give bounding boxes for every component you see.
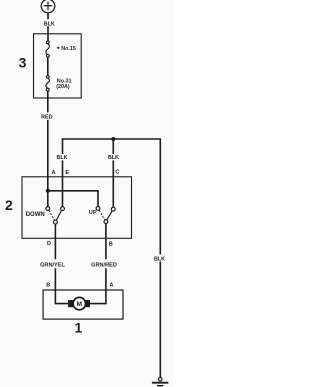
svg-text:A: A: [52, 170, 56, 176]
wire D to motor (GRN/YEL): [55, 224, 68, 304]
svg-text:(20A): (20A): [56, 84, 70, 90]
svg-text:BLK: BLK: [44, 21, 55, 27]
UP switch: [96, 207, 115, 224]
svg-text:BLK: BLK: [108, 155, 119, 161]
svg-text:UP: UP: [89, 210, 97, 216]
svg-text:No.15: No.15: [61, 46, 76, 52]
svg-text:M: M: [77, 301, 83, 308]
svg-text:GRN/RED: GRN/RED: [91, 262, 117, 268]
svg-text:B: B: [46, 283, 50, 289]
fuse No.31 (20A) label: [56, 79, 71, 90]
wire battery to fuse box (BLK): [47, 13, 49, 41]
svg-text:3: 3: [19, 55, 27, 71]
ground rail wire (top horizontal + right side down): [63, 139, 161, 377]
svg-text:BLK: BLK: [154, 256, 165, 262]
svg-text:DOWN: DOWN: [26, 212, 45, 218]
svg-text:BLK: BLK: [56, 155, 67, 161]
power window motor box 1: [43, 290, 123, 319]
fuse No.31 (20A): [46, 75, 50, 91]
wire E to switch (BLK): [62, 160, 64, 206]
wire C to switch (BLK): [112, 139, 114, 207]
fuse No.15 label: [57, 46, 76, 52]
svg-text:GRN/YEL: GRN/YEL: [40, 262, 65, 268]
fuse box 3: [34, 34, 82, 98]
ground G: [152, 378, 169, 386]
power window switch box 2: [22, 177, 132, 239]
svg-text:A: A: [109, 283, 113, 289]
svg-text:D: D: [47, 241, 51, 247]
junction on ground rail: [111, 137, 115, 141]
svg-text:1: 1: [75, 319, 83, 335]
junction node on wire A: [46, 189, 50, 193]
svg-text:C: C: [115, 169, 119, 175]
svg-text:E: E: [65, 170, 69, 176]
svg-text:RED: RED: [41, 115, 52, 121]
battery positive terminal: [41, 0, 55, 13]
fuse No.15: [46, 41, 50, 57]
svg-text:2: 2: [5, 197, 13, 213]
DOWN switch: [46, 207, 65, 224]
wire B to motor (GRN/RED): [90, 224, 106, 304]
wire between fuses: [47, 57, 49, 75]
svg-text:B: B: [109, 242, 113, 248]
wire fuse box to switch (RED): [47, 91, 49, 207]
motor M1: [68, 297, 90, 309]
wire branch A to UP contact: [48, 191, 98, 207]
